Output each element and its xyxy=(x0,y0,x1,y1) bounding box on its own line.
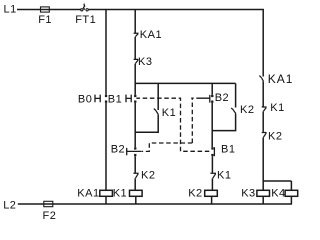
svg-text:K3: K3 xyxy=(241,188,255,200)
svg-text:K2: K2 xyxy=(188,188,202,200)
svg-text:B0: B0 xyxy=(78,94,92,106)
svg-text:K1: K1 xyxy=(270,102,284,114)
svg-text:L2: L2 xyxy=(3,199,16,211)
svg-text:K2: K2 xyxy=(141,169,155,181)
svg-text:B1: B1 xyxy=(108,94,122,106)
svg-text:KA1: KA1 xyxy=(77,188,99,200)
svg-text:F1: F1 xyxy=(38,14,52,26)
svg-text:B2: B2 xyxy=(111,143,125,155)
svg-text:KA1: KA1 xyxy=(140,29,162,41)
svg-text:K1: K1 xyxy=(217,169,231,181)
svg-text:K2: K2 xyxy=(240,104,254,116)
svg-text:F2: F2 xyxy=(43,210,57,222)
svg-text:K2: K2 xyxy=(268,130,282,142)
svg-text:FT1: FT1 xyxy=(75,14,96,26)
svg-text:K1: K1 xyxy=(162,107,176,119)
svg-text:K3: K3 xyxy=(138,56,152,68)
svg-text:B2: B2 xyxy=(215,92,229,104)
svg-text:L1: L1 xyxy=(4,4,17,16)
svg-text:KA1: KA1 xyxy=(268,72,294,86)
svg-text:K1: K1 xyxy=(113,188,127,200)
svg-text:B1: B1 xyxy=(221,143,235,155)
svg-text:K4: K4 xyxy=(271,188,285,200)
